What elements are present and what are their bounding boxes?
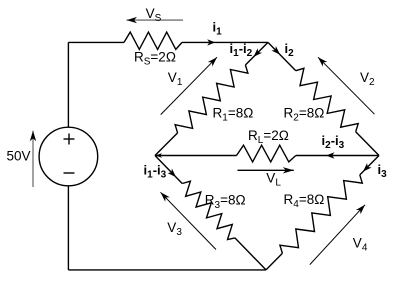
svg-text:50V: 50V [7,149,31,164]
